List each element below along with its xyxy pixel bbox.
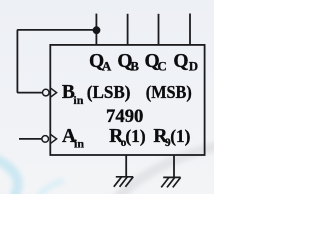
svg-text:(1): (1) [125, 126, 145, 147]
svg-text:in: in [73, 93, 83, 107]
svg-text:in: in [74, 136, 84, 150]
svg-text:Q: Q [173, 51, 188, 72]
svg-text:A: A [102, 59, 112, 74]
svg-text:(1): (1) [170, 126, 190, 147]
svg-text:7490: 7490 [106, 106, 143, 127]
svg-text:D: D [189, 59, 198, 74]
svg-text:(LSB): (LSB) [87, 82, 131, 103]
svg-text:C: C [157, 59, 166, 74]
svg-text:(MSB): (MSB) [146, 82, 192, 103]
svg-text:B: B [130, 59, 139, 74]
